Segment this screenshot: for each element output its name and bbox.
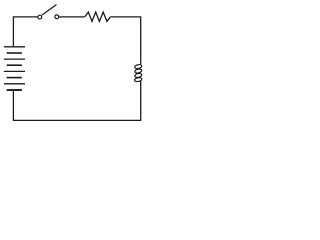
- wire: resistor to inductor, top right corner: [110, 17, 140, 64]
- battery B1 plate long 3: [4, 70, 25, 72]
- wire: inductor to bottom, bottom wire, up to battery bottom: [13, 81, 140, 120]
- battery B1 plate short 2: [7, 64, 22, 66]
- inductor L1 loop 3: [134, 73, 142, 78]
- wire left: battery top to switch: [13, 17, 37, 47]
- resistor R1: [85, 12, 111, 21]
- inductor L1 loop 4: [134, 77, 142, 82]
- switch S1 left contact: [38, 15, 42, 19]
- battery B1 plate long 4: [4, 83, 25, 85]
- switch S1 lever: [42, 5, 57, 16]
- wire: switch to resistor: [59, 16, 85, 18]
- inductor L1 loop 1: [134, 64, 142, 69]
- battery B1 plate short 1: [7, 52, 22, 54]
- battery B1 plate short 3: [7, 77, 22, 79]
- battery B1 plate short 4: [7, 89, 22, 91]
- switch S1 right contact: [55, 15, 59, 19]
- inductor L1 loop 2: [134, 68, 142, 73]
- battery B1 plate long 2: [4, 58, 25, 60]
- battery B1 plate long 1: [4, 46, 25, 48]
